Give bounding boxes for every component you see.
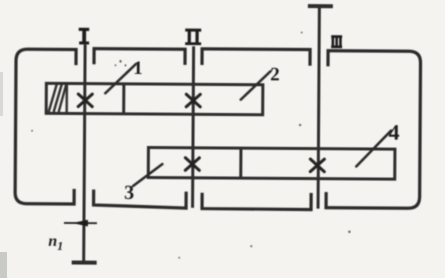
scan speckles — [30, 30, 352, 260]
gear mark x on shaft III (gear 4) — [310, 159, 324, 172]
divider between gear 3 and gear 4 sections — [239, 148, 242, 178]
svg-text:2: 2 — [270, 64, 280, 85]
gear mark x on shaft II (gear 2) — [186, 94, 200, 107]
label shaft III (drawn roman numeral) — [331, 37, 342, 47]
gear mark x on shaft I (gear 1) — [78, 94, 92, 107]
gear mark x on shaft II (gear 3) — [185, 158, 199, 171]
housing top segment between shafts I and II (bearing hooks both ends) — [94, 49, 185, 64]
svg-text:4: 4 — [388, 120, 399, 145]
housing bottom segment between shafts III and II (bearing hooks both ends) — [202, 194, 311, 210]
housing bottom segment between shafts II and I (bearing hooks both ends) — [94, 191, 187, 208]
divider between gear 1 and gear 2 sections — [122, 84, 125, 114]
shaft I (input shaft, vertical line through housing) — [84, 45, 85, 261]
leader line for label 4 — [356, 130, 391, 166]
svg-text:3: 3 — [124, 182, 134, 204]
svg-text:1: 1 — [133, 58, 143, 79]
lower gear band (gears 3 and 4 on shafts II and III) — [148, 148, 395, 180]
scan streak left edge — [0, 72, 3, 116]
input rotation arrow line on shaft I — [64, 222, 97, 224]
housing right section (top-right edge, right wall, bottom-right edge with bearing hook at shaft III) — [326, 51, 421, 209]
shaft III (output shaft, extends above housing) — [318, 7, 319, 209]
shaft III top end cap — [308, 4, 333, 8]
leader line for label 3 — [133, 164, 162, 186]
label shaft II (drawn roman numeral) — [185, 30, 201, 44]
hatch line a — [49, 84, 57, 112]
hatch line c — [59, 84, 67, 112]
hatch line b — [54, 84, 62, 112]
housing top segment between shafts II and III (bearing hooks both ends) — [202, 49, 310, 64]
leader line for label 2 — [241, 71, 271, 100]
scan smudge bottom-left — [0, 252, 7, 278]
shaft II (intermediate shaft) — [193, 46, 194, 207]
leader line for label 1 — [105, 64, 135, 93]
upper gear band (gears 1 and 2 on shafts I and II) — [46, 83, 263, 114]
shaft I bottom end cap — [72, 261, 97, 265]
housing left section (top-left edge, left wall, bottom-left edge with bearing hooks at shaft I) — [15, 49, 76, 204]
input rotation arrowhead (pointing left) — [72, 220, 88, 227]
coupling hatch divider — [65, 83, 68, 113]
label shaft I (drawn roman numeral) — [79, 29, 90, 43]
